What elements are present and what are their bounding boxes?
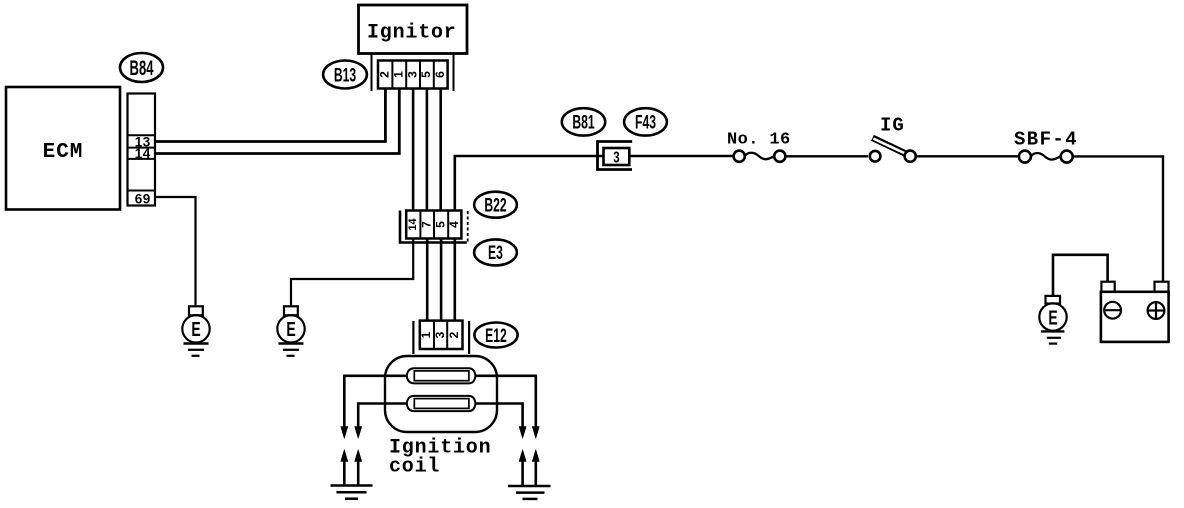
svg-text:1: 1: [391, 71, 405, 78]
svg-text:E3: E3: [488, 244, 503, 264]
connector E12 housing side lines: [413, 321, 469, 354]
connector label B81: [562, 108, 605, 135]
pin 13 label: [135, 134, 151, 149]
B13 pin 6 label: [433, 71, 447, 78]
svg-text:Ignitor: Ignitor: [367, 22, 457, 45]
svg-text:E12: E12: [485, 326, 507, 346]
spark plug ground arrows left: [341, 450, 362, 487]
svg-text:E: E: [191, 317, 200, 340]
connector label F43: [624, 108, 667, 135]
ground E1 symbol: [182, 306, 209, 356]
connector B13 housing side lines: [372, 54, 454, 91]
svg-text:B13: B13: [334, 66, 356, 86]
B13 pin 5 label: [419, 71, 433, 78]
connector label E12: [474, 323, 517, 348]
wire coil2 right to spark plug arrow: [475, 404, 526, 439]
B22 pin 4 label: [447, 221, 461, 228]
svg-text:3: 3: [433, 331, 447, 338]
wire ECM pin13 to B13 pin2: [155, 89, 385, 142]
pin 69 label: [135, 191, 151, 206]
in-line connector bracket B81/F43: [598, 142, 633, 170]
ignition coil body: [385, 356, 497, 479]
fuse No. 16: [727, 131, 791, 162]
wire E3 to E12 pin1: [426, 239, 429, 321]
ground right (spark plugs): [508, 486, 551, 499]
svg-text:3: 3: [405, 71, 419, 78]
connector B84 pin strip: [128, 94, 156, 206]
B22 pin 5 label: [433, 221, 447, 228]
wire connector to fuse No.16: [629, 155, 733, 157]
connector B13 pin strip: [378, 61, 448, 89]
connector label B22: [474, 192, 517, 218]
coil secondary winding 1: [407, 368, 476, 383]
svg-text:F43: F43: [635, 113, 656, 133]
svg-text:SBF-4: SBF-4: [1014, 129, 1078, 151]
svg-text:E: E: [1048, 306, 1057, 329]
svg-text:B81: B81: [572, 113, 594, 133]
svg-text:2: 2: [447, 331, 461, 338]
wire B13 pin5 to B22 pin7: [426, 89, 429, 211]
svg-text:14: 14: [407, 218, 419, 231]
wire E3 to E12 pin2: [453, 239, 456, 321]
E12 pin 1 label: [419, 331, 433, 338]
connector label B84: [120, 53, 163, 82]
coil secondary winding 2: [407, 396, 476, 411]
svg-text:B84: B84: [130, 56, 154, 80]
connector B22/E3 housing bracket: [400, 211, 468, 244]
svg-text:14: 14: [135, 146, 151, 161]
wire coil1 left to spark plug arrow: [341, 376, 407, 439]
connector label B13: [323, 61, 367, 89]
svg-text:5: 5: [433, 221, 447, 228]
pin 14 label: [135, 146, 151, 161]
spark plug ground arrows right: [519, 450, 539, 487]
E12 pin 3 label: [433, 331, 447, 338]
svg-text:1: 1: [419, 331, 433, 338]
wire fuse No.16 to switch IG: [786, 155, 868, 157]
B22 pin 7 label: [419, 221, 433, 228]
wire coil1 right to spark plug arrow: [475, 376, 539, 439]
wire ECM pin14 to B13 pin1: [155, 89, 399, 154]
svg-text:69: 69: [135, 191, 151, 206]
B13 pin 2 label: [378, 71, 392, 78]
switch IG: [870, 115, 916, 162]
svg-text:ECM: ECM: [43, 141, 84, 164]
wire B22 pin4 to fuse connector: [455, 156, 604, 211]
svg-text:3: 3: [613, 148, 620, 166]
svg-text:No. 16: No. 16: [727, 131, 791, 150]
ground left (spark plugs): [331, 486, 373, 499]
wire switch IG to SBF-4: [916, 155, 1018, 157]
wire B13 pin3 to B22 pin14: [412, 89, 415, 211]
fusible link SBF-4: [1014, 129, 1078, 163]
connector label E3: [474, 239, 517, 265]
svg-text:IG: IG: [880, 115, 905, 137]
battery: [1101, 282, 1169, 342]
wire B22 pin14 to ground E2: [291, 239, 413, 307]
svg-text:2: 2: [378, 71, 392, 78]
ground E2 symbol: [277, 306, 304, 356]
svg-text:7: 7: [419, 221, 433, 228]
wire SBF-4 to battery positive: [1073, 156, 1163, 281]
connector B22 pin strip: [406, 211, 461, 239]
svg-text:B22: B22: [484, 196, 506, 216]
B13 pin 3 label: [405, 71, 419, 78]
B22 pin 14 label: [407, 218, 419, 231]
B13 pin 1 label: [391, 71, 405, 78]
wire E3 to E12 pin3: [440, 239, 443, 321]
wire coil2 left to spark plug arrow: [355, 404, 407, 439]
Ignitor box U1: [359, 5, 468, 54]
wire battery negative to ground E3: [1053, 255, 1108, 296]
in-line connector pin 3 box: [604, 148, 630, 166]
connector E12 pin strip: [420, 321, 463, 349]
svg-text:5: 5: [419, 71, 433, 78]
ECM box: [6, 87, 120, 210]
wire ECM pin69 to ground E1: [155, 197, 196, 306]
svg-text:E: E: [286, 317, 295, 340]
wire B13 pin6 to B22 pin5: [439, 89, 442, 211]
svg-text:coil: coil: [389, 456, 440, 479]
svg-text:4: 4: [447, 221, 461, 228]
ground E (battery) symbol: [1039, 296, 1066, 344]
E12 pin 2 label: [447, 331, 461, 338]
svg-text:6: 6: [433, 71, 447, 78]
